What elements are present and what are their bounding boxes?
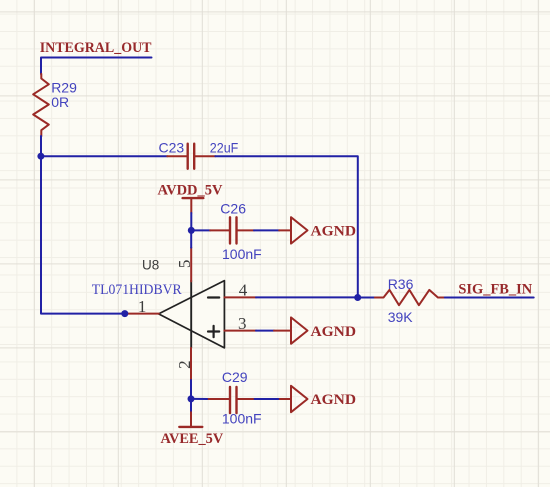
wire AVEE node to C29 (191, 398, 209, 400)
svg-text:U8: U8 (142, 258, 159, 273)
ground AGND (pin3) (274, 317, 356, 343)
pin 2 (175, 348, 194, 380)
svg-text:100nF: 100nF (222, 246, 262, 262)
wire pin2 to AVEE node (190, 380, 192, 399)
svg-text:39K: 39K (388, 309, 414, 325)
node junction pin1 (121, 310, 128, 317)
svg-text:INTEGRAL_OUT: INTEGRAL_OUT (40, 40, 152, 56)
wire pin5 to AVDD node (190, 230, 192, 247)
wire R36 to SIG_FB_IN (445, 297, 534, 299)
svg-text:3: 3 (238, 314, 247, 333)
wire C29 to AGND (255, 398, 280, 400)
svg-text:R29: R29 (51, 79, 77, 95)
wire C23 to right rail (215, 156, 357, 297)
ground AGND (C26) (279, 217, 356, 243)
svg-text:C29: C29 (222, 369, 248, 385)
svg-text:22uF: 22uF (210, 140, 239, 156)
svg-text:SIG_FB_IN: SIG_FB_IN (458, 282, 532, 298)
wire node to C26 (191, 229, 210, 231)
power port AVEE_5V (161, 412, 224, 447)
svg-text:0R: 0R (51, 94, 69, 110)
svg-text:C23: C23 (159, 140, 185, 156)
pin 3 (224, 314, 256, 333)
resistor R36 39K (375, 276, 445, 325)
svg-text:5: 5 (175, 260, 194, 269)
power port AVDD_5V (158, 182, 223, 213)
wire C26 to AGND (254, 229, 279, 231)
svg-text:100nF: 100nF (222, 411, 262, 427)
pin 1 (125, 297, 159, 316)
pin 5 (175, 248, 194, 282)
svg-text:AGND: AGND (311, 324, 357, 340)
wire pin3 to AGND (256, 330, 274, 332)
wire R29 to node (40, 136, 42, 156)
node junction right rail (354, 294, 361, 301)
wire node to R36 (358, 297, 375, 299)
resistor R29 (33, 74, 77, 136)
wire AVDD to node (190, 213, 192, 230)
wire AVEE node down (190, 399, 192, 412)
node junction AVEE (188, 395, 195, 402)
node junction AVDD (188, 227, 195, 234)
wire INTEGRAL_OUT stub (41, 58, 152, 75)
wire pin4 to right rail node (256, 296, 358, 298)
svg-text:R36: R36 (388, 276, 414, 292)
svg-text:AVDD_5V: AVDD_5V (158, 182, 223, 198)
capacitor C23 22uF (159, 140, 239, 169)
svg-text:2: 2 (175, 360, 194, 369)
ground AGND (C29) (280, 386, 356, 412)
wire node to C23 (41, 155, 167, 157)
svg-text:4: 4 (239, 281, 248, 300)
svg-text:C26: C26 (220, 201, 246, 217)
svg-text:TL071HIDBVR: TL071HIDBVR (92, 282, 182, 298)
pin 4 (224, 281, 256, 300)
capacitor C26 100nF (210, 201, 262, 263)
wire left rail down (41, 156, 125, 313)
capacitor C29 100nF (209, 369, 262, 427)
svg-text:1: 1 (138, 297, 147, 316)
op-amp U8 TL071HIDBVR (92, 258, 225, 348)
node junction left (37, 153, 44, 160)
svg-text:AVEE_5V: AVEE_5V (161, 431, 224, 447)
svg-text:AGND: AGND (311, 392, 357, 408)
svg-text:AGND: AGND (311, 224, 357, 240)
